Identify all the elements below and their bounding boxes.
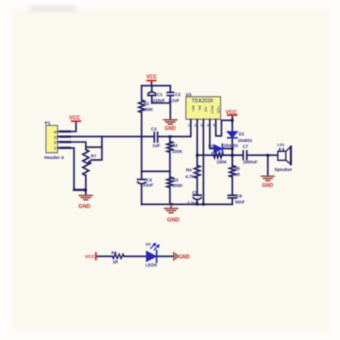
svg-text:OUT: OUT bbox=[210, 106, 215, 115]
wire R1 to node B bbox=[141, 113, 143, 172]
wire ground rail bbox=[142, 203, 233, 205]
resistor R2 bbox=[167, 137, 173, 172]
svg-text:100K: 100K bbox=[172, 149, 183, 154]
svg-text:R1: R1 bbox=[144, 101, 150, 106]
resistor R1 bbox=[139, 86, 145, 113]
svg-text:R7: R7 bbox=[91, 153, 97, 158]
svg-text:C3: C3 bbox=[151, 127, 157, 132]
svg-text:1: 1 bbox=[54, 146, 57, 152]
power VCC1 bbox=[146, 75, 157, 81]
junction VCC3 node bbox=[231, 119, 234, 122]
ground GND5 rotated bbox=[174, 253, 178, 261]
svg-text:150K: 150K bbox=[216, 159, 227, 164]
wiper arrow R7 bbox=[88, 160, 92, 165]
wire VCC3 stub and column to D2 bbox=[231, 115, 233, 131]
svg-text:Header 4: Header 4 bbox=[44, 155, 64, 160]
svg-text:C4: C4 bbox=[146, 177, 152, 182]
svg-text:1R: 1R bbox=[113, 260, 118, 265]
potentiometer R7 bbox=[83, 150, 89, 176]
resistor R3 bbox=[167, 171, 173, 204]
ground GND1 bbox=[164, 120, 177, 124]
svg-text:2000uF: 2000uF bbox=[243, 160, 258, 165]
wire wiper riser bbox=[92, 137, 102, 160]
svg-text:4.7K: 4.7K bbox=[185, 174, 195, 179]
svg-text:IN-: IN- bbox=[197, 106, 202, 112]
wire node B horizontal bbox=[142, 170, 170, 172]
wire R7 bottom bbox=[85, 176, 87, 196]
capacitor C2 bbox=[167, 86, 173, 103]
junction speaker gnd bbox=[267, 154, 270, 157]
wire pin3 input wire bbox=[58, 136, 155, 138]
svg-text:P1: P1 bbox=[45, 120, 51, 125]
ground GND3 bbox=[165, 204, 178, 213]
speaker LS1 bbox=[278, 147, 291, 165]
svg-text:220uF: 220uF bbox=[153, 98, 166, 103]
wire pin5 jog to VCC node bbox=[216, 119, 233, 136]
svg-text:C7: C7 bbox=[243, 144, 249, 149]
svg-text:D2: D2 bbox=[239, 132, 245, 137]
svg-text:GND: GND bbox=[179, 254, 191, 260]
svg-text:2: 2 bbox=[194, 124, 196, 128]
LED D3 bbox=[147, 244, 160, 263]
svg-text:50nF: 50nF bbox=[235, 199, 245, 204]
svg-text:4: 4 bbox=[54, 130, 57, 136]
diode D1 bbox=[214, 144, 222, 153]
resistor R8 bbox=[112, 254, 124, 258]
svg-text:100K: 100K bbox=[143, 107, 154, 112]
svg-text:1N4001: 1N4001 bbox=[238, 138, 253, 143]
svg-text:IN+: IN+ bbox=[191, 106, 196, 113]
svg-text:LS1: LS1 bbox=[277, 143, 284, 147]
capacitor C1 bbox=[148, 86, 156, 103]
header P1 box bbox=[46, 126, 58, 153]
wire pin4 stub to VCC riser bbox=[58, 121, 77, 131]
power VCC2 bbox=[69, 115, 80, 121]
IC pin numbers bbox=[188, 123, 215, 127]
svg-text:C2: C2 bbox=[175, 92, 181, 97]
wire pin1 to node A bbox=[170, 119, 191, 136]
svg-text:R3: R3 bbox=[173, 177, 179, 182]
ground GND4 bbox=[262, 176, 275, 180]
svg-text:3: 3 bbox=[54, 135, 57, 141]
junction pin2 feedback bbox=[196, 154, 199, 157]
top-left faint smudge bbox=[30, 5, 76, 12]
wire R7 top tie bbox=[86, 146, 102, 148]
resistor R5 bbox=[214, 153, 224, 158]
svg-text:GND: GND bbox=[165, 126, 177, 132]
power VCC4 bbox=[85, 253, 96, 260]
svg-text:1N4001: 1N4001 bbox=[224, 143, 239, 148]
capacitor C7 bbox=[243, 151, 278, 160]
capacitor C6 bbox=[228, 177, 236, 204]
svg-text:GND: GND bbox=[262, 183, 274, 189]
svg-text:C5: C5 bbox=[192, 190, 198, 195]
svg-text:3: 3 bbox=[201, 124, 203, 128]
svg-text:D3: D3 bbox=[146, 243, 151, 247]
ground GND2 bbox=[79, 195, 92, 199]
diode D2 bbox=[227, 132, 237, 138]
svg-text:GND: GND bbox=[78, 204, 90, 210]
wire pin2 down bbox=[196, 119, 198, 165]
svg-text:LED0: LED0 bbox=[146, 263, 158, 268]
wire D1 bar to output column bbox=[223, 148, 233, 150]
wire top rail bbox=[142, 85, 171, 87]
junction rail pin3 bbox=[202, 203, 205, 206]
IC U1 body bbox=[186, 97, 221, 119]
svg-text:Speaker: Speaker bbox=[274, 167, 292, 172]
svg-text:+VS: +VS bbox=[216, 106, 221, 114]
svg-text:2.2uF: 2.2uF bbox=[168, 98, 179, 103]
capacitor C5 bbox=[193, 178, 201, 204]
wire pin4 to D1 bbox=[210, 119, 214, 148]
svg-text:4: 4 bbox=[207, 124, 209, 128]
resistor R6 bbox=[230, 155, 236, 177]
wire feedback from pin2 bbox=[197, 154, 214, 156]
junction output node bbox=[231, 154, 234, 157]
wire pin1 stub down to gnd rail bbox=[58, 148, 86, 190]
svg-text:R5: R5 bbox=[211, 150, 217, 155]
svg-text:1: 1 bbox=[188, 123, 190, 127]
junction D1 output bbox=[231, 147, 234, 150]
svg-text:R8: R8 bbox=[111, 250, 117, 255]
wire speaker gnd drop bbox=[267, 155, 269, 176]
svg-text:VCC: VCC bbox=[146, 75, 157, 81]
svg-text:2.2uF: 2.2uF bbox=[187, 200, 198, 205]
svg-text:D1: D1 bbox=[208, 144, 214, 149]
wire D2 to output node bbox=[231, 138, 233, 155]
svg-text:U1: U1 bbox=[186, 92, 192, 97]
svg-text:2: 2 bbox=[54, 140, 57, 146]
svg-text:R2: R2 bbox=[172, 143, 178, 148]
junction rail C5 bbox=[196, 203, 199, 206]
svg-text:C1: C1 bbox=[157, 92, 163, 97]
junction node A bbox=[169, 135, 172, 138]
svg-text:GND: GND bbox=[167, 218, 179, 224]
svg-text:1uF: 1uF bbox=[152, 143, 160, 148]
svg-text:R6: R6 bbox=[234, 166, 240, 171]
wire R5 to output to C7 bbox=[223, 154, 243, 156]
svg-text:1R: 1R bbox=[234, 172, 240, 177]
svg-text:22uF: 22uF bbox=[143, 183, 154, 188]
wire cap bottoms join bbox=[152, 103, 171, 119]
junction rail gnd bbox=[170, 203, 173, 206]
LED rail wires bbox=[96, 255, 173, 257]
IC pin name texts bbox=[191, 106, 221, 115]
label header pin numbers bbox=[54, 130, 57, 152]
junction R7 gnd bbox=[84, 189, 87, 192]
svg-text:5: 5 bbox=[213, 124, 215, 128]
svg-text:R4: R4 bbox=[186, 168, 192, 173]
resistor R4 bbox=[194, 166, 200, 179]
wire pin3 down bbox=[202, 119, 204, 204]
svg-text:TDA2030: TDA2030 bbox=[192, 99, 214, 105]
capacitor C4 bbox=[138, 171, 146, 204]
svg-text:100K: 100K bbox=[172, 183, 183, 188]
svg-text:-VS: -VS bbox=[204, 106, 209, 113]
wire pin2 stub bbox=[58, 142, 86, 150]
wire VCC stub to rail bbox=[151, 81, 153, 86]
capacitor C3 bbox=[154, 132, 170, 142]
power VCC3 bbox=[226, 110, 237, 116]
svg-text:C6: C6 bbox=[236, 193, 242, 198]
svg-text:VCC: VCC bbox=[85, 254, 96, 259]
